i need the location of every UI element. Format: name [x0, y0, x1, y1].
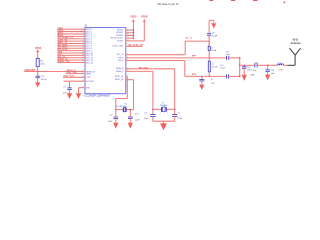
wire net SPI_SCLK left pin row 10 [58, 50, 86, 52]
capacitor C13 series on RFN [225, 74, 227, 78]
wire combiner node vertical [239, 58, 241, 77]
svg-text:44: 44 [127, 29, 129, 31]
capacitor C6 left load cap [150, 114, 155, 116]
wire jog to ground [209, 19, 214, 21]
svg-text:15: 15 [82, 52, 84, 54]
svg-text:7.5 nH: 7.5 nH [211, 50, 217, 52]
svg-text:47: 47 [127, 70, 129, 72]
junction on VDDS stem [133, 35, 135, 37]
svg-text:Rx_Tx: Rx_Tx [186, 38, 193, 40]
svg-text:24 MHz: 24 MHz [160, 105, 168, 107]
svg-text:14: 14 [82, 49, 84, 51]
wire feed line segment 1 [240, 64, 255, 66]
junction on VDDS stem [133, 32, 135, 34]
ground arrow C15 [265, 75, 270, 81]
wire rail X1 left [116, 109, 124, 111]
svg-text:17: 17 [127, 53, 129, 55]
wire X32K_Q2 from pin [126, 79, 134, 81]
svg-text:C2: C2 [211, 79, 213, 81]
resistor R2 [36, 58, 39, 66]
svg-text:VDDS: VDDS [35, 48, 42, 50]
svg-text:VDD_DCDC_SW: VDD_DCDC_SW [128, 44, 144, 46]
wire DCDC_SW stub [126, 45, 143, 47]
ground arrow VSS [76, 93, 81, 99]
wire stub down to C9 [69, 81, 71, 88]
ground arrow C2 [199, 85, 204, 90]
wire crystal rail right [166, 108, 174, 110]
wire C17 to ground [115, 119, 117, 123]
wire L1 bottom stub [208, 51, 210, 58]
svg-text:TMSC: TMSC [86, 73, 92, 75]
wire ground rail 24M [153, 120, 175, 122]
inductor L2 [208, 61, 210, 72]
capacitor C8 [207, 33, 211, 35]
junction on VDDS stem [133, 37, 135, 39]
svg-text:C8 close to pin 17: C8 close to pin 17 [157, 2, 179, 6]
capacitor C15 shunt [265, 69, 269, 71]
wire net JTAG_TMSC [66, 73, 85, 75]
wire net RESET_N from RC network to U1 [24, 71, 85, 73]
junction Y1 left [152, 109, 154, 111]
svg-text:C13: C13 [220, 65, 223, 67]
wire net AUDIO_DI left pin row 14 [58, 59, 86, 61]
capacitor C17 left load cap [114, 116, 119, 118]
svg-text:5: 5 [83, 28, 84, 30]
wire X32K left vertical [115, 99, 117, 110]
wire C12 to ground [243, 68, 245, 75]
capacitor C10 [36, 75, 40, 77]
wire pin VDDR to power stem [126, 40, 145, 42]
wire net BTN1 left pin row 3 [58, 33, 86, 35]
svg-text:DCOUPL: DCOUPL [86, 81, 94, 83]
wire C16 to ground [129, 119, 131, 123]
svg-text:43: 43 [127, 78, 129, 80]
wire C9 to ground [69, 89, 71, 93]
svg-text:32.768 kHz: 32.768 kHz [116, 106, 127, 108]
ground arrow C16 [128, 123, 133, 129]
svg-text:RF_N: RF_N [118, 60, 124, 62]
svg-text:31: 31 [127, 43, 129, 45]
svg-text:13: 13 [82, 47, 84, 49]
svg-text:25: 25 [82, 76, 84, 78]
svg-text:RX_TX: RX_TX [117, 54, 124, 56]
wire VDDS stem [132, 22, 134, 38]
svg-text:33: 33 [82, 86, 84, 88]
red tick mark top 1 [210, 0, 214, 2]
svg-text:CC2650F128RHB5T: CC2650F128RHB5T [84, 94, 110, 98]
node junction nRESET [37, 71, 39, 73]
svg-text:AUDIO_CLK: AUDIO_CLK [58, 60, 70, 63]
wire net DIO_12 left pin row 13 [58, 57, 86, 59]
svg-text:24M_XOSC: 24M_XOSC [139, 66, 150, 69]
capacitor C7 right load cap [172, 114, 177, 116]
wire RF_N from pin [126, 60, 185, 62]
svg-text:X32K_Q2: X32K_Q2 [115, 79, 125, 81]
svg-text:12: 12 [82, 45, 84, 47]
wire antenna feed dark segment [287, 64, 295, 66]
wire VDDR stem [143, 22, 145, 41]
red tick mark top 3 [253, 0, 258, 2]
svg-text:18: 18 [82, 54, 84, 56]
wire shunt C12 stub [243, 65, 245, 67]
wire RFN shunt stub [201, 76, 203, 79]
svg-text:10: 10 [82, 40, 84, 42]
svg-text:RFN: RFN [192, 74, 197, 76]
junction at C8 branch [208, 40, 210, 42]
junction L2 bottom [209, 76, 211, 78]
wire X32K right vertical [133, 80, 135, 110]
wire crystal rail left [153, 108, 162, 110]
ground arrow C17 [113, 123, 118, 129]
ground arrow at C8 [213, 20, 215, 23]
svg-text:GND: GND [251, 75, 256, 77]
inductor L3 series on feed [277, 64, 283, 66]
capacitor C11 series on RFP [226, 56, 228, 60]
svg-text:VDDS3: VDDS3 [116, 35, 124, 37]
crystal X1 [122, 108, 124, 112]
svg-text:VDDR: VDDR [141, 16, 148, 18]
capacitor C14 series on feed [254, 63, 256, 67]
wire VSS pin [79, 87, 86, 89]
IC U1 microcontroller CC2650 body [85, 28, 126, 94]
wire net JTAG_TCKC [63, 76, 85, 78]
svg-text:20: 20 [82, 59, 84, 61]
svg-text:Antenna: Antenna [291, 42, 302, 45]
wire X24M right vertical [174, 69, 176, 115]
svg-text:2.7 pF: 2.7 pF [220, 68, 226, 70]
wire C6 down [152, 116, 154, 121]
wire net LED1 left pin row 1 [58, 28, 86, 30]
svg-text:8.2 nH: 8.2 nH [212, 66, 218, 68]
svg-text:2 nH: 2 nH [279, 69, 284, 71]
wire net UART_RX left pin row 6 [58, 40, 86, 42]
wire X24M_N from pin [126, 68, 175, 70]
junction shunt C15 [267, 65, 269, 67]
wire net SPI_MOSI left pin row 8 [58, 45, 86, 47]
svg-text:24: 24 [82, 72, 84, 74]
ground arrow C12 [242, 75, 247, 81]
wire C8 node to L1 [208, 41, 210, 46]
red tick mark top 2 [231, 0, 235, 2]
svg-text:TCKC: TCKC [86, 77, 92, 79]
wire C7 down [174, 116, 176, 121]
svg-text:19: 19 [82, 56, 84, 58]
capacitor C2 shunt on RFN [199, 78, 204, 80]
svg-text:3: 3 [160, 113, 161, 115]
junction X1 left [115, 109, 117, 111]
svg-text:46: 46 [127, 67, 129, 69]
svg-text:RFP: RFP [192, 55, 197, 57]
svg-text:100k: 100k [40, 63, 44, 65]
wire C8 lower stub [208, 35, 210, 41]
wire net AUDIO_CLK left pin row 15 [58, 62, 86, 64]
wire pin VDDS2 to power stem [126, 32, 134, 34]
wire rail X1 right [126, 109, 133, 111]
wire net BTN2 left pin row 4 [58, 35, 86, 37]
wire L1 top stub [208, 41, 210, 46]
wire RX_TX horizontal to C8 [185, 40, 209, 42]
wire C10 to ground [37, 78, 39, 83]
svg-text:50 Ω: 50 Ω [293, 38, 298, 41]
wire RF_N vertical jog [184, 61, 186, 77]
svg-text:32: 32 [127, 34, 129, 36]
crystal Y1 [161, 107, 163, 112]
wire VDDS to R2 [37, 52, 39, 58]
wire net SCL left pin row 12 [58, 54, 86, 56]
wire pin VDDS3 to power stem [126, 35, 134, 37]
wire RF_N lower run [185, 75, 227, 77]
svg-text:VDDS2: VDDS2 [116, 32, 124, 34]
svg-text:6.2 pF: 6.2 pF [212, 36, 218, 38]
svg-text:8: 8 [83, 35, 84, 37]
red dot top right [284, 2, 286, 3]
wire node to C10 [37, 72, 39, 77]
junction L1/L2 top [209, 57, 211, 59]
svg-text:1: 1 [127, 57, 128, 59]
junction Y1 right [174, 109, 176, 111]
wire X32K hug vertical [126, 77, 128, 99]
svg-text:1: 1 [156, 108, 157, 110]
capacitor C12 shunt [242, 66, 246, 68]
wire X32K jog left [116, 98, 128, 100]
wire X32K_Q1 from pin [126, 76, 128, 78]
svg-text:9: 9 [83, 37, 84, 39]
wire center stem [163, 121, 165, 123]
junction on VDDS stem [133, 29, 135, 31]
wire R2 to node nRESET [37, 66, 39, 71]
svg-text:JTAG_TCKC: JTAG_TCKC [63, 75, 75, 78]
wire X24M left vertical [152, 71, 154, 114]
wire net SPI_FLASH_CS left pin row 5 [58, 38, 86, 40]
svg-text:nRESET: nRESET [24, 68, 35, 72]
junction shunt C12 [243, 65, 245, 67]
wire DCOUPL pin [64, 80, 86, 82]
svg-text:23: 23 [82, 80, 84, 82]
ground arrow 24M crystal [160, 123, 167, 130]
wire net UART_TX left pin row 7 [58, 42, 86, 44]
svg-text:7: 7 [83, 33, 84, 35]
wire X24M_P from pin [126, 70, 153, 72]
wire net SPI_MISO left pin row 9 [58, 47, 86, 49]
wire feed line segment 3 [284, 64, 288, 66]
inductor L1 [208, 46, 210, 50]
svg-text:DIO_14: DIO_14 [86, 62, 94, 64]
svg-text:34: 34 [127, 40, 129, 42]
wire C2 to ground [201, 81, 203, 85]
capacitor C16 right load cap [128, 116, 133, 118]
wire VSS down [78, 88, 80, 94]
svg-text:X24M_P: X24M_P [116, 71, 124, 73]
ground arrow below C9 [67, 93, 72, 99]
svg-text:33: 33 [127, 37, 129, 39]
wire RF_P from pin [126, 57, 227, 59]
svg-text:VDDS_DCDC: VDDS_DCDC [110, 38, 123, 40]
wire shunt C15 stub [267, 65, 269, 70]
svg-text:11: 11 [82, 42, 84, 44]
wire C16 top stub [129, 110, 131, 117]
svg-text:2: 2 [127, 59, 128, 61]
junction RFN shunt [201, 76, 203, 78]
svg-text:X32K_Q1: X32K_Q1 [115, 76, 125, 78]
wire feed line segment 2 [257, 64, 277, 66]
svg-text:1.5 pF: 1.5 pF [251, 70, 257, 72]
svg-text:21: 21 [82, 61, 84, 63]
junction C16 tap [130, 109, 132, 111]
wire net SDA left pin row 11 [58, 52, 86, 54]
antenna ANT1 [290, 48, 301, 65]
wire pin VDDS_DCDC to power stem [126, 37, 134, 39]
svg-text:DCDC_SW: DCDC_SW [113, 46, 123, 48]
wire net LED2 left pin row 2 [58, 31, 86, 33]
wire pin VDDS to power stem [126, 29, 134, 31]
svg-text:4: 4 [167, 113, 168, 115]
svg-text:JTAG_TMSC: JTAG_TMSC [66, 71, 78, 74]
svg-text:45: 45 [127, 31, 129, 33]
svg-text:VDDR: VDDR [117, 40, 123, 42]
wire C15 to ground [267, 71, 269, 74]
svg-text:VDDS: VDDS [130, 16, 137, 18]
wire C8 upper stub [208, 20, 210, 33]
svg-text:VDDS: VDDS [117, 30, 123, 32]
wire RX_TX vertical riser [184, 41, 186, 55]
svg-text:35: 35 [82, 70, 84, 72]
svg-text:6: 6 [83, 30, 84, 32]
svg-text:100 nF: 100 nF [41, 79, 48, 81]
capacitor C9 [67, 87, 71, 89]
wire C17 top stub [115, 110, 117, 117]
svg-text:2: 2 [169, 108, 170, 110]
ground arrow below C10 [35, 82, 40, 87]
wire RX_TX from pin [126, 54, 185, 56]
